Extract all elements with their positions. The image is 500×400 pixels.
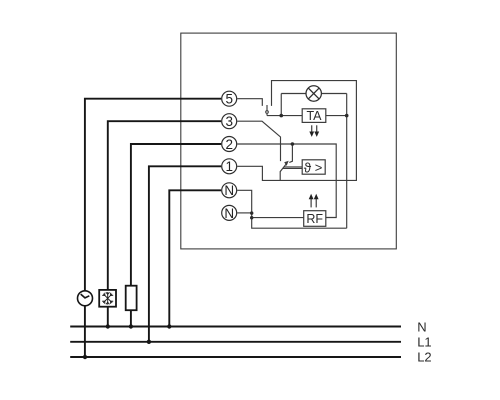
svg-text:L1: L1 [417, 335, 431, 350]
svg-text:L2: L2 [417, 350, 431, 365]
svg-text:5: 5 [225, 92, 233, 107]
svg-text:TA: TA [306, 109, 322, 123]
svg-text:>: > [315, 160, 323, 175]
svg-text:1: 1 [225, 159, 233, 174]
svg-text:2: 2 [225, 137, 233, 152]
svg-text:N: N [224, 183, 234, 198]
svg-text:N: N [224, 206, 234, 221]
svg-text:N: N [417, 319, 426, 334]
svg-text:3: 3 [225, 114, 233, 129]
svg-text:RF: RF [306, 212, 323, 226]
svg-text:ϑ: ϑ [304, 160, 312, 175]
